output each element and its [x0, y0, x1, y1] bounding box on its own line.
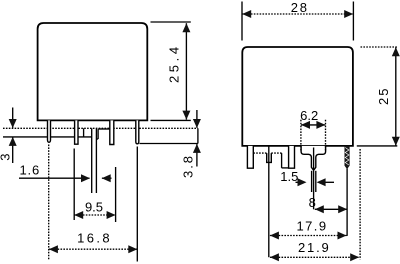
svg-text:25: 25: [376, 87, 391, 105]
svg-text:9.5: 9.5: [85, 200, 103, 215]
svg-text:25.4: 25.4: [166, 43, 181, 83]
svg-text:17.9: 17.9: [297, 219, 328, 234]
svg-text:21.9: 21.9: [298, 240, 331, 255]
svg-text:3: 3: [0, 154, 13, 161]
svg-text:28: 28: [291, 0, 309, 15]
svg-text:3.8: 3.8: [180, 154, 195, 178]
svg-text:16.8: 16.8: [77, 231, 112, 246]
svg-text:8: 8: [309, 195, 316, 210]
svg-text:6.2: 6.2: [300, 108, 318, 123]
svg-text:1.5: 1.5: [280, 169, 298, 184]
svg-text:1.6: 1.6: [20, 162, 40, 177]
